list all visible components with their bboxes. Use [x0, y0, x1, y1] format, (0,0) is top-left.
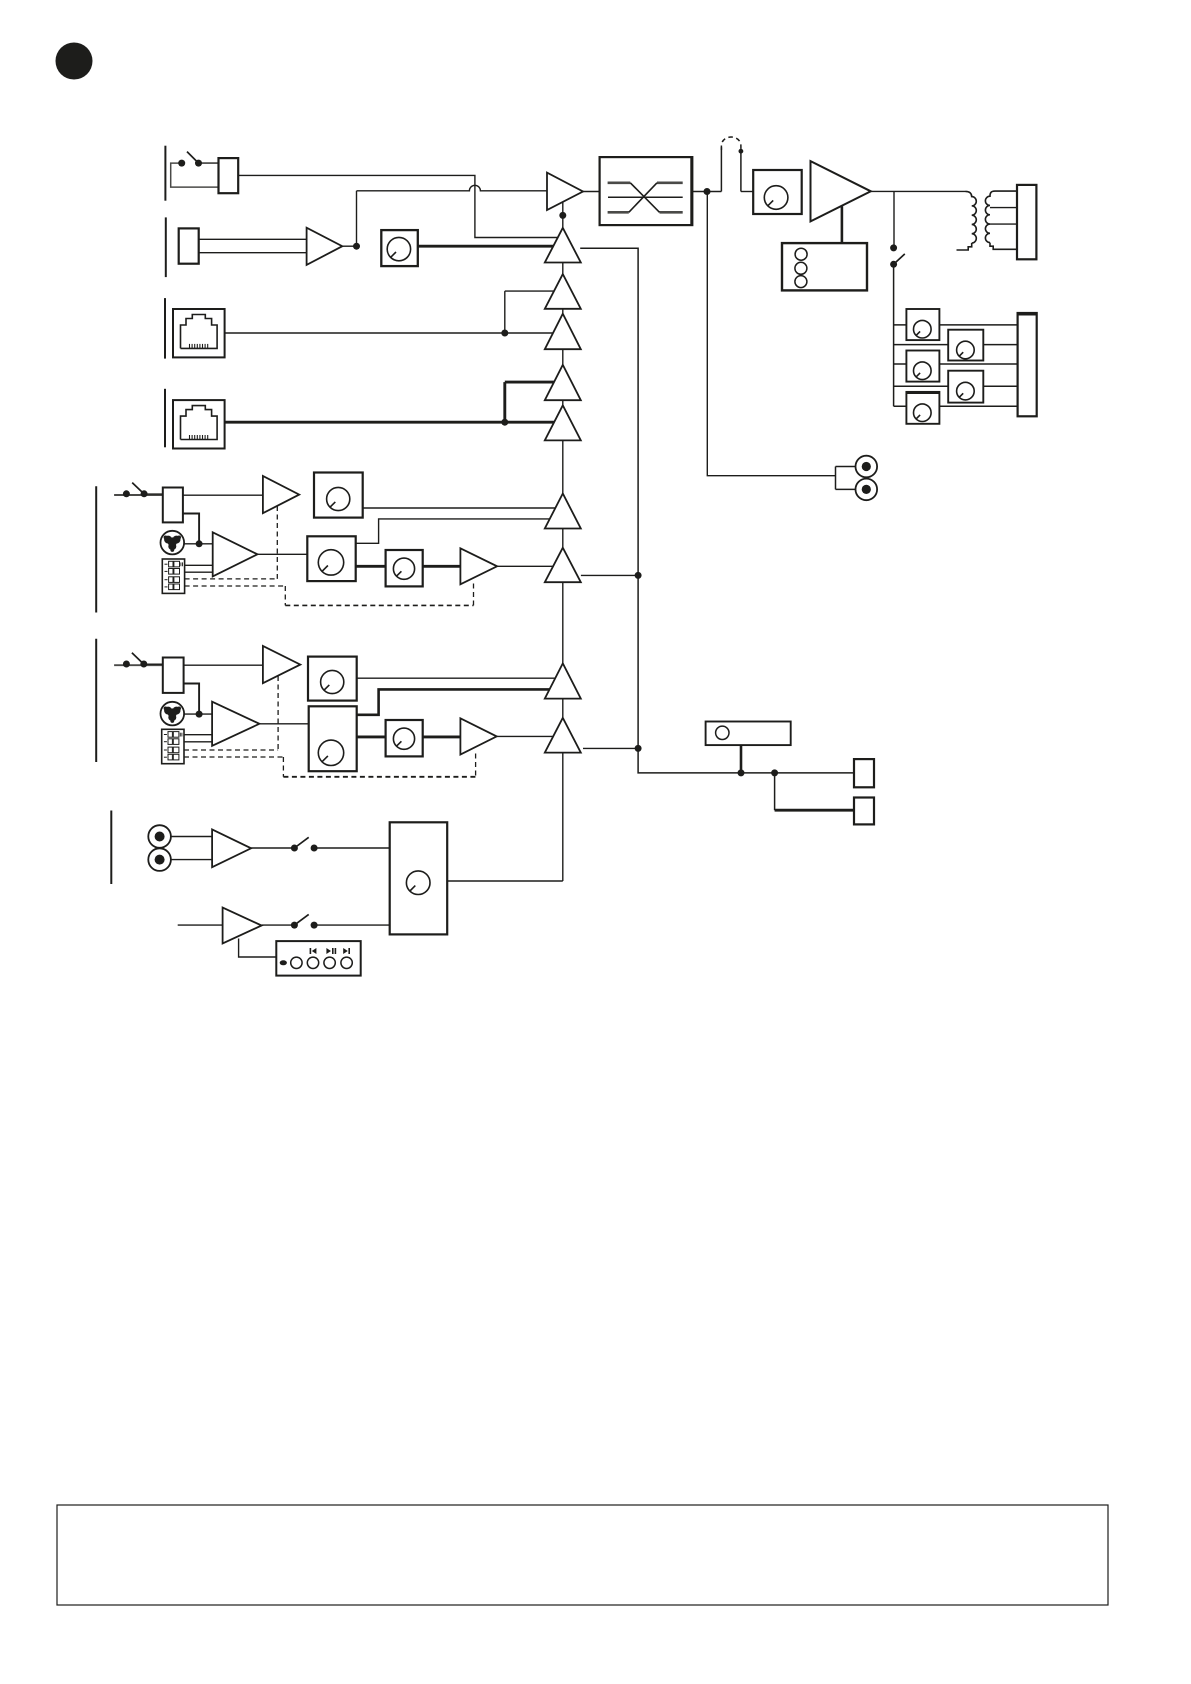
summing amp A5 [545, 405, 581, 440]
wire ch1 box to phantom node [183, 514, 199, 544]
summing amp A9 [545, 718, 581, 753]
ch2 control dashed link (DIP row3 to preamp A) [184, 676, 278, 750]
ch1 compressor pot [307, 536, 355, 581]
aux RCA jack L [148, 825, 171, 848]
ch1 switch stub wire [114, 494, 163, 496]
ch1 DIP switch block [162, 559, 184, 593]
aux bracket [110, 811, 112, 885]
source select box with pot [390, 822, 448, 934]
ch2 control dashed link (DIP row4 to post amp) [184, 754, 476, 777]
ch2 post amp [460, 718, 496, 754]
input 1 switch [178, 152, 218, 167]
wire buffer to matrix [583, 191, 600, 193]
speaker terminal block (top) [1017, 185, 1036, 259]
input 2 preamp [307, 228, 343, 265]
ch1 bracket [95, 486, 97, 612]
ch2 DIP switch block [162, 729, 184, 763]
speaker line 5 wire [894, 405, 1018, 407]
ch2 bracket [95, 639, 97, 762]
wire preamp to node [342, 245, 356, 247]
wire aux switch to source select [314, 847, 390, 849]
attenuator pot SP5 [906, 392, 939, 424]
ch2 compressor pot [309, 706, 357, 771]
RJ45 input 2 bracket [164, 389, 166, 448]
wire ch2 compressor step output to A8 [357, 689, 562, 714]
speaker line 1 wire [894, 324, 1018, 326]
wire ch1 box to preamp [183, 494, 263, 496]
wire power amp to protection block [841, 206, 844, 243]
speaker line 3 wire [894, 363, 1018, 365]
RJ45 jack 2 [173, 400, 225, 448]
summing amp A3 [545, 314, 581, 350]
wire level pot to summing amp A1 (thick) [418, 245, 562, 248]
ch2 gain pot [308, 657, 357, 701]
ch1 switch [123, 483, 163, 498]
input 2 balanced pair wires [199, 239, 307, 252]
wire bus to remote box B (thick) [775, 773, 854, 810]
RJ45 input 1 bracket [164, 298, 166, 359]
wire ch2 gain pot to summing amp A8 [357, 677, 562, 679]
ch1 gain pot [314, 473, 363, 518]
node ch1 phantom junction [196, 540, 203, 547]
speaker line 4 wire [894, 385, 1018, 387]
summing amp A7 [545, 548, 581, 583]
node line-input junction [353, 243, 360, 250]
aux preamp [212, 829, 251, 867]
wire ch2 post amp to summing amp A9 [497, 735, 562, 737]
rec out RCA jack L [856, 456, 878, 478]
wire node to crosspoint buffer (with hop) [357, 185, 548, 246]
wire A9 output to bus [583, 745, 642, 752]
ch2 input terminal box [163, 658, 184, 693]
rec out connector bracket [836, 467, 856, 490]
buffer amp U1 [547, 173, 583, 210]
summing amp A8 [545, 663, 581, 698]
wire ch2 preamp B to compressor [259, 723, 308, 725]
ch1 control dashed link (DIP row4 to post amp) [185, 584, 474, 606]
node bus branch [771, 769, 778, 776]
wire ch1 eq pot to post amp (thick) [423, 565, 461, 568]
wire aux preamp to switch [251, 847, 294, 849]
ch1 phantom power symbol [161, 531, 185, 555]
wire input1 to summing amp A1 [238, 175, 562, 237]
player control box with transport buttons [276, 941, 360, 976]
aux input wires [171, 837, 212, 860]
wire A7 output to bus [581, 572, 642, 579]
ch1 preamp B [213, 532, 258, 576]
output transformer secondary with taps [985, 191, 1017, 249]
wire phantom to junction [184, 543, 213, 545]
ch1 eq pot [386, 550, 423, 586]
input 2 level pot [381, 230, 418, 266]
aux switch 2 [291, 914, 318, 928]
matrix interior symbol [608, 183, 683, 213]
summing amp A4 [545, 365, 581, 400]
wire RJ1 to summing amps [225, 291, 562, 336]
master volume pot [753, 170, 802, 214]
wire player preamp to switch [262, 924, 295, 926]
power amplifier [811, 161, 871, 221]
wire RJ2 to summing amps (thick) [225, 382, 562, 426]
summing chain vertical wire [562, 202, 564, 881]
node matrix output [704, 188, 711, 195]
attenuator pot SP2 [948, 330, 983, 361]
mute relay block [706, 722, 791, 746]
remote terminal box B [854, 798, 874, 825]
attenuator pot SP3 [906, 351, 939, 382]
jumper link (dashed) [721, 137, 741, 150]
summing amp A2 [545, 274, 581, 309]
aux RCA jack R [148, 848, 171, 871]
wire preamp to player control [239, 939, 277, 958]
attenuator pot SP1 [906, 309, 939, 340]
rec out RCA jack R [856, 479, 878, 501]
wire ch1 compressor step output to A6 [356, 519, 562, 543]
ch2 preamp A [263, 646, 300, 683]
wire ch2 eq pot to post amp (thick) [423, 735, 461, 738]
speaker switch [890, 244, 905, 267]
remote terminal box A [854, 759, 874, 787]
wire aux switch 2 to source select [314, 924, 390, 926]
ch1 DIP wires to preamp [185, 565, 213, 572]
wire ch2 box to preamp [184, 664, 263, 666]
RJ45 jack 1 [173, 309, 225, 357]
wire power amp to output transformer [871, 190, 966, 192]
wire ch1 post amp to summing amp A7 [497, 565, 562, 567]
note box [57, 1505, 1108, 1605]
wire relay to bus (thick) [738, 745, 745, 776]
ch2 phantom power symbol [161, 702, 185, 726]
page corner marker (filled circle) [56, 43, 93, 80]
ch2 preamp B [212, 702, 259, 746]
aux switch 1 [291, 837, 318, 851]
wire ch1 gain pot to summing amp A6 [363, 507, 562, 509]
pre-out / power-in jumper pins [721, 147, 743, 191]
speaker terminal block (bottom) [1018, 313, 1037, 416]
wire ch1 preamp B to compressor [258, 553, 308, 555]
wire source select to summing chain [447, 880, 563, 882]
ch2 eq pot [386, 720, 423, 756]
wire ch2 compressor to eq pot (thick) [357, 735, 386, 738]
input 2 terminal box [179, 228, 199, 263]
summing amp A1 [545, 228, 581, 263]
ch1 control dashed link (DIP row3 to preamp A) [185, 506, 278, 579]
node ch2 phantom junction [196, 711, 203, 718]
crosspoint matrix block [600, 157, 693, 225]
ch2 DIP wires to preamp [184, 735, 212, 742]
ch2 switch [123, 653, 163, 668]
ch1 preamp A [263, 476, 299, 513]
mix bus wire [580, 248, 854, 773]
wire jumper to master volume [741, 191, 753, 193]
speaker line 2 wire [894, 344, 1018, 346]
input 2 bracket [165, 217, 167, 277]
output transformer primary [957, 191, 977, 250]
wire ch1 compressor to eq pot (thick) [356, 565, 386, 568]
wire speaker bus vertical [893, 264, 895, 406]
wire phantom to junction [184, 713, 212, 715]
attenuator pot SP4 [948, 371, 983, 403]
input 1 terminal box [219, 158, 239, 193]
wire matrix node to rec out [707, 192, 835, 476]
wire matrix output [692, 191, 721, 193]
input 1 bracket [164, 146, 166, 201]
protection/indicator block [782, 243, 867, 290]
ch2 switch stub wire [114, 664, 163, 666]
node buffer input tap [559, 212, 566, 219]
wire player input [178, 924, 223, 926]
wire ch2 box to phantom node [184, 684, 200, 715]
ch1 input terminal box [163, 488, 183, 523]
ch1 post amp [460, 548, 497, 584]
player preamp [223, 908, 262, 944]
summing amp A6 [545, 494, 581, 529]
wire amp output down-branch [893, 191, 895, 248]
input 1 ground loop wire [171, 163, 219, 187]
